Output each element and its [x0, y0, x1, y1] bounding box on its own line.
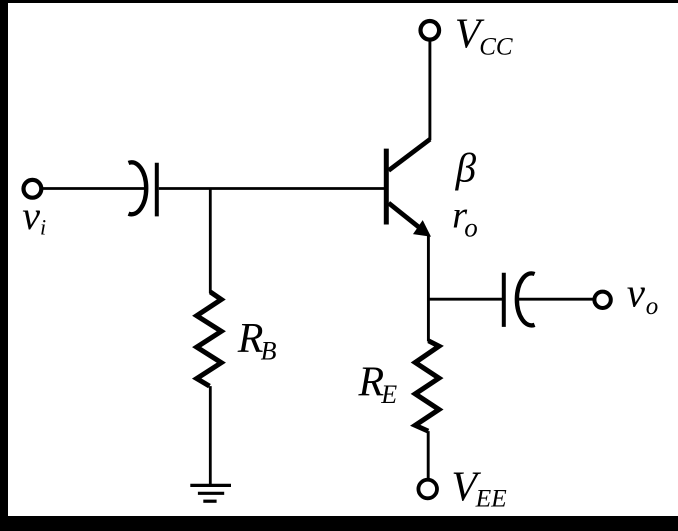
svg-text:o: o — [464, 213, 478, 243]
svg-text:E: E — [380, 380, 397, 409]
svg-text:β: β — [455, 145, 477, 191]
svg-text:R: R — [237, 316, 264, 362]
svg-text:o: o — [646, 293, 659, 320]
svg-text:B: B — [261, 336, 277, 365]
svg-text:EE: EE — [475, 484, 508, 513]
svg-text:v: v — [627, 270, 646, 316]
svg-text:i: i — [40, 215, 46, 240]
svg-text:R: R — [358, 359, 385, 405]
svg-text:CC: CC — [479, 34, 513, 61]
svg-text:v: v — [22, 193, 40, 238]
